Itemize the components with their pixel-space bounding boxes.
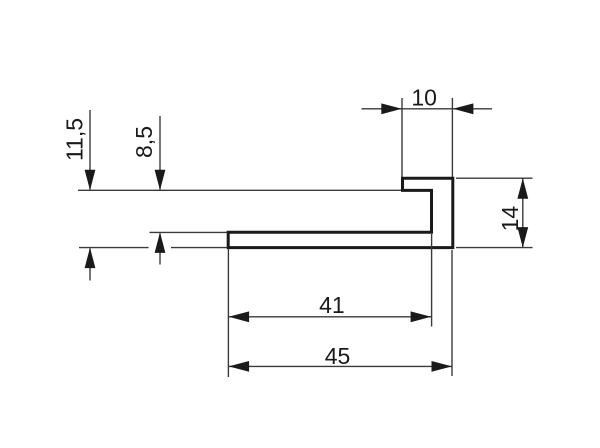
- label 10: [411, 84, 437, 110]
- dimension 11,5 line x=90: [85, 110, 96, 281]
- svg-text:45: 45: [325, 343, 351, 369]
- dimension 14 (right): [456, 178, 533, 247]
- extension line y=190 (plate underside, left): [78, 189, 401, 191]
- label 14: [497, 206, 523, 232]
- svg-text:41: 41: [319, 292, 345, 318]
- dimension 41 (bottom): [228, 234, 431, 327]
- profile outline (J-profile cross-section): [228, 178, 453, 247]
- label 45: [325, 343, 351, 369]
- dimension 10 (top): [362, 98, 493, 177]
- label 41: [319, 292, 345, 318]
- svg-text:8,5: 8,5: [131, 126, 157, 158]
- extension line y=247.6 (flange bottom, left, gap at 8,5 arrow): [79, 247, 229, 249]
- dimension 8,5 line x=160: [155, 116, 166, 265]
- svg-text:14: 14: [497, 206, 523, 232]
- label 8,5: [131, 126, 157, 158]
- svg-text:10: 10: [411, 84, 437, 110]
- dimension 45 (bottom): [228, 249, 452, 378]
- svg-text:11,5: 11,5: [62, 118, 88, 161]
- label 11,5: [62, 118, 88, 161]
- extension line y=232.4 (flange top, left): [150, 231, 230, 233]
